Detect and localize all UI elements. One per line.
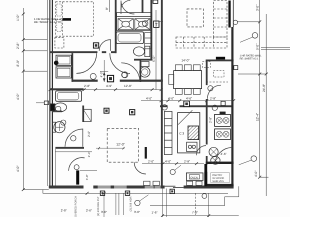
svg-text:2'-8": 2'-8" <box>184 159 190 163</box>
svg-text:3'-0": 3'-0" <box>256 5 260 11</box>
dining table <box>174 71 202 89</box>
dim text right col <box>254 5 266 177</box>
svg-text:4'-6": 4'-6" <box>221 152 227 156</box>
svg-text:8'-0": 8'-0" <box>16 59 20 66</box>
dim row hall texts <box>84 84 132 88</box>
wall bath right vertical <box>150 0 152 61</box>
dim vline right inner <box>259 0 261 177</box>
keynote circle t3 <box>56 106 61 111</box>
bottom dim texts <box>61 208 198 214</box>
svg-text:12'-4": 12'-4" <box>255 113 259 121</box>
toilet 2 <box>140 62 150 78</box>
bottom dim ticks <box>86 192 211 217</box>
keynote circle kitchen <box>162 105 167 110</box>
dashed line laundry <box>206 81 228 83</box>
door arc kitchen passage <box>134 162 146 174</box>
wall bedroom bottom <box>50 51 117 53</box>
wall stub toilet alcove <box>52 111 62 113</box>
cabinet column left <box>164 111 172 154</box>
wall pantry bottom <box>206 184 234 186</box>
svg-text:COVERED PORCH: COVERED PORCH <box>75 196 78 217</box>
keynote square bedroom <box>93 43 98 48</box>
door arc top wall <box>121 1 134 14</box>
dashed column vertical <box>214 1 227 38</box>
keynote circle 1 <box>90 73 96 79</box>
svg-text:4'-0": 4'-0" <box>165 159 171 163</box>
svg-text:2'-8": 2'-8" <box>61 208 67 212</box>
dim row nook <box>148 159 190 163</box>
linen shelves <box>145 33 152 49</box>
door arc entry closet <box>69 158 85 171</box>
wall bath2 top <box>50 88 84 90</box>
porch extension verticals <box>104 189 209 218</box>
keynote circle 2 <box>122 72 128 78</box>
dashed band horizontal <box>176 37 227 48</box>
wall hall bottom <box>72 80 98 82</box>
sink cabinet island <box>187 142 197 151</box>
keynote square T <box>154 21 159 27</box>
dim row kitchen top: line <box>141 100 234 102</box>
toilet 3 <box>50 103 66 112</box>
bath3 sink <box>209 147 218 156</box>
dim vline left <box>23 0 49 193</box>
svg-text:24'-8": 24'-8" <box>262 84 266 92</box>
dim text left col <box>16 14 20 172</box>
keynote square top <box>153 0 158 3</box>
keynote circle porch + leader <box>135 200 140 205</box>
label rated wall left <box>63 18 71 21</box>
wall bath left vertical <box>115 0 117 53</box>
svg-text:5'-0": 5'-0" <box>152 56 156 62</box>
entry interior lines <box>55 149 97 186</box>
dim ticks right <box>258 20 268 178</box>
svg-text:T: T <box>155 22 158 27</box>
svg-text:RE: SHEET A2.1: RE: SHEET A2.1 <box>240 58 259 61</box>
svg-text:3'-0": 3'-0" <box>134 210 140 214</box>
wall right thick bar top <box>228 1 230 28</box>
keynote square gr <box>130 110 135 115</box>
keynote circle right wall <box>233 20 237 24</box>
wall nook right stub <box>204 172 207 186</box>
svg-text:4'-9": 4'-9" <box>106 84 112 88</box>
door arc bath3 <box>196 146 206 156</box>
porch dashed vline <box>195 193 197 215</box>
wall powder right vertical <box>82 106 84 123</box>
door arc hall left (fan) <box>76 53 96 73</box>
svg-text:OVEN: OVEN <box>190 176 197 179</box>
wall kitchen top <box>160 105 168 107</box>
svg-text:3'-6": 3'-6" <box>101 210 107 214</box>
window openings bottom wall <box>84 185 184 188</box>
dashed cab laundry a <box>202 62 210 68</box>
tub 2 <box>56 91 82 101</box>
dashed cab laundry b <box>213 71 224 77</box>
chairs bottom row <box>175 89 200 95</box>
svg-text:8": 8" <box>105 7 109 10</box>
keynote circle hall <box>122 72 127 77</box>
svg-text:4'-0": 4'-0" <box>16 165 20 172</box>
sink 2 <box>135 19 150 30</box>
wall right outer <box>231 27 233 186</box>
keynote circle powder <box>71 136 76 141</box>
dashed ceiling rect <box>107 128 138 162</box>
wall bath2 bottom <box>55 147 84 149</box>
svg-text:2'-6": 2'-6" <box>86 208 92 212</box>
svg-text:4'-0": 4'-0" <box>168 97 174 101</box>
door arc laundry <box>207 85 221 99</box>
svg-text:2'-8": 2'-8" <box>208 117 212 123</box>
range hatched <box>188 126 199 140</box>
nook base cabinets <box>144 181 202 185</box>
keynote circle right top + leader <box>252 33 258 39</box>
door leaf kitchen passage <box>145 147 147 159</box>
wall bottom outer <box>49 186 234 189</box>
svg-text:12'-0": 12'-0" <box>116 143 125 147</box>
wall right-wing left vertical <box>206 60 208 86</box>
sliding door <box>165 185 184 188</box>
svg-text:2'-4": 2'-4" <box>87 151 91 157</box>
keynote circle kitchen2 <box>212 105 217 110</box>
keynote square left wall + leader <box>44 101 48 105</box>
svg-text:2'-6": 2'-6" <box>87 131 91 137</box>
dim ticks left <box>22 13 25 191</box>
svg-text:4'-0": 4'-0" <box>146 97 152 101</box>
nightstand dashed <box>55 38 64 48</box>
dashed island square <box>187 9 203 27</box>
wall closet verticals <box>72 53 74 82</box>
dim row kitchen texts <box>146 97 216 101</box>
keynote circle entry <box>74 165 79 170</box>
bath3 toilet <box>211 157 220 165</box>
keynote circle nook + leader <box>170 169 175 174</box>
wall pantry top <box>206 162 234 164</box>
svg-text:4'-0": 4'-0" <box>16 93 20 100</box>
tub <box>116 32 143 44</box>
keynote square hall <box>107 75 113 81</box>
chairs top row <box>175 65 200 71</box>
dim row hall: line <box>50 89 161 91</box>
door leaf entry <box>76 170 79 184</box>
dim vline hall center <box>100 60 108 82</box>
svg-text:2'-8": 2'-8" <box>16 42 20 49</box>
dim vline right outer <box>265 14 267 196</box>
svg-text:SHELVES: SHELVES <box>212 180 224 183</box>
svg-text:4'-0": 4'-0" <box>100 71 104 77</box>
svg-text:(2) 2X8 HDR: (2) 2X8 HDR <box>129 196 132 211</box>
dim row kitchen ticks <box>160 99 236 102</box>
pedestal sink <box>53 122 65 133</box>
wall stub shower <box>142 0 144 13</box>
svg-text:12'-8": 12'-8" <box>124 84 132 88</box>
door arc pantry <box>215 148 232 165</box>
bottom dim line right <box>163 215 239 217</box>
svg-text:7'-8": 7'-8" <box>192 211 198 215</box>
entry door opening <box>84 185 94 188</box>
wall left outer double <box>49 0 50 187</box>
island diagonal <box>178 110 192 124</box>
svg-text:9'-0": 9'-0" <box>256 44 260 50</box>
svg-text:14'-0": 14'-0" <box>181 58 189 62</box>
keynote circle laundry <box>208 86 213 91</box>
vanity counter <box>117 13 152 31</box>
door arc bath top <box>121 0 130 14</box>
svg-text:C 3: C 3 <box>179 132 184 136</box>
keynote square gr2 <box>104 108 109 113</box>
wall pantry left thick <box>204 164 207 186</box>
toilet 1 <box>133 46 149 56</box>
island outline <box>178 113 200 153</box>
svg-text:2'-8": 2'-8" <box>84 84 90 88</box>
door arc hall right (fan) <box>110 53 130 73</box>
keynote circle bath <box>142 21 148 27</box>
svg-text:RE: SHEET A2.1 TYP: RE: SHEET A2.1 TYP <box>34 20 61 24</box>
chair left end <box>169 74 174 84</box>
keynote square kitchen wall <box>184 101 190 107</box>
label rated wall text left <box>34 17 63 24</box>
svg-text:2'-8": 2'-8" <box>210 97 216 101</box>
column dot <box>54 61 59 66</box>
keynote square rw <box>234 66 238 70</box>
wall toilet nook <box>140 61 142 83</box>
svg-text:(2) 2X6 DBL PLT: (2) 2X6 DBL PLT <box>97 196 100 216</box>
label rated wall right <box>216 57 225 60</box>
svg-text:4'-6": 4'-6" <box>186 97 192 101</box>
dim line great room <box>96 147 125 149</box>
wall hall-dining vertical <box>161 0 163 186</box>
keynote squares porch <box>100 191 104 195</box>
dim hline right bottom <box>260 176 269 178</box>
keynote circle sink <box>61 120 66 125</box>
svg-text:1'-0": 1'-0" <box>16 14 20 21</box>
svg-text:3'-0": 3'-0" <box>85 174 89 180</box>
keynote circle right bottom + leader <box>251 156 257 162</box>
keynote circle porch right <box>202 194 207 199</box>
door arc bedroom <box>99 40 110 51</box>
dim hline right top <box>237 21 260 23</box>
dim hline right y47 <box>261 46 290 48</box>
pantry text box <box>211 173 230 183</box>
svg-text:4'-0": 4'-0" <box>254 171 258 177</box>
svg-text:2'-0": 2'-0" <box>148 159 154 163</box>
dryer vent dark <box>220 112 226 115</box>
svg-text:1'-6": 1'-6" <box>152 211 158 215</box>
refrigerator box <box>186 173 203 181</box>
sink 1 <box>118 19 133 30</box>
label rated wall text right <box>240 54 263 60</box>
shelf box entry closet <box>83 109 91 121</box>
closet shelf boxes <box>56 55 71 78</box>
dim row hall ticks <box>49 88 163 91</box>
door arc hall-bath <box>121 63 140 82</box>
washer dryer stack <box>215 114 231 139</box>
bed dashed <box>56 2 94 36</box>
door arc powder <box>65 129 83 147</box>
wall right wing top <box>206 60 234 62</box>
dim vline top center <box>110 0 164 90</box>
dim hline right mid <box>238 73 266 75</box>
porch slab line <box>43 186 239 205</box>
